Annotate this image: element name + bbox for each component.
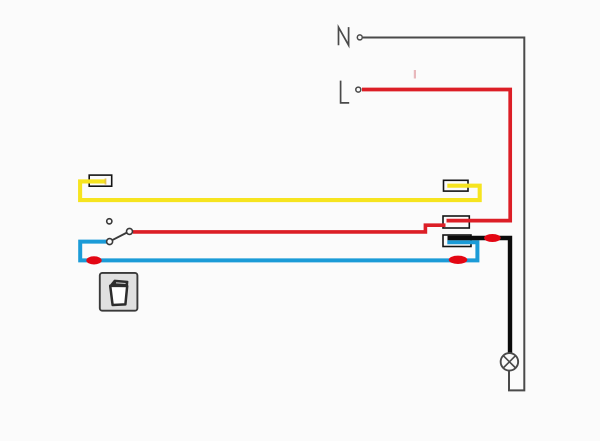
switch SW1 right contact <box>127 228 133 234</box>
wire earth loop (yellow) <box>80 181 480 200</box>
wire neutral N (grey) <box>363 38 524 391</box>
wire lamp feed (black) <box>448 238 511 353</box>
connector block J1 (yellow, left) <box>89 175 112 186</box>
wire switched live to switch (red) <box>133 225 446 232</box>
wire tip tick (orange, left yellow stub) <box>105 178 107 184</box>
lamp LP1 <box>501 353 519 371</box>
crimp ferrule F1 (red, on blue left) <box>86 256 101 264</box>
label L <box>341 81 350 103</box>
connector block J3 (red, live) <box>443 216 469 228</box>
connector block J4 (switched live / lamp) <box>443 235 471 247</box>
switch SW1 lever <box>112 233 127 241</box>
rocker switch icon S1 <box>100 273 138 311</box>
switch SW1 common contact <box>107 239 113 245</box>
wire live L (red) <box>362 90 510 221</box>
crimp ferrule F3 (red, on black) <box>484 234 501 242</box>
connector block J2 (yellow, right) <box>444 180 469 191</box>
wire return to lamp (blue) <box>80 242 477 261</box>
crimp ferrule F2 (red, on blue right) <box>449 256 468 264</box>
terminal L <box>356 87 361 92</box>
terminal N <box>357 35 362 40</box>
switch SW1 upper contact <box>107 219 112 224</box>
stray pink mark (artifact) <box>414 70 416 79</box>
label N <box>339 27 349 45</box>
